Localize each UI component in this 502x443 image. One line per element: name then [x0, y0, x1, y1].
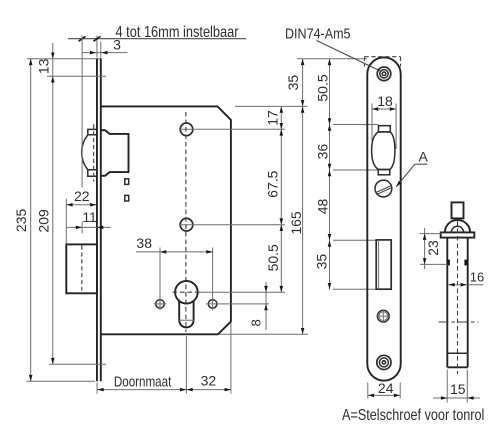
svg-text:8: 8: [249, 319, 264, 326]
dim 3 faceplate thickness: [82, 52, 128, 54]
svg-text:13: 13: [36, 58, 52, 74]
extension line at 13 below top: [47, 75, 106, 77]
top extension line (plate top): [27, 58, 100, 60]
extension deadbolt top: [333, 239, 376, 241]
faceplate outline (front view): [367, 57, 400, 380]
screw hole middle: [180, 218, 193, 231]
dim 38: [136, 251, 213, 253]
small square detail lower: [125, 195, 129, 201]
hole top center line: [179, 128, 285, 130]
svg-text:165: 165: [288, 211, 304, 235]
dim 8: [265, 282, 267, 330]
dim 18 extensions: [371, 104, 373, 150]
latch barrel (front view): [372, 132, 395, 170]
svg-text:50.5: 50.5: [315, 74, 331, 101]
dim 4 tot 16mm instelbaar: [68, 38, 246, 40]
svg-text:38: 38: [136, 235, 152, 251]
svg-text:35: 35: [313, 254, 329, 270]
dim 15: [433, 397, 480, 399]
svg-text:11: 11: [82, 209, 97, 225]
svg-text:32: 32: [201, 372, 217, 388]
svg-text:24: 24: [378, 380, 394, 396]
latch bolt tail inside body: [101, 130, 129, 176]
extension deadbolt bottom: [333, 288, 376, 290]
svg-text:A=Stelschroef voor tonrol: A=Stelschroef voor tonrol: [342, 407, 484, 424]
svg-text:209: 209: [35, 209, 51, 233]
svg-text:Doornmaat: Doornmaat: [114, 375, 172, 391]
latch stem top (front view): [379, 126, 391, 132]
svg-text:22: 22: [74, 188, 90, 204]
dim 23: [424, 228, 426, 269]
dim 209 bottom extension: [49, 363, 106, 365]
dim 23 extensions: [420, 233, 441, 235]
dim Doornmaat: [97, 389, 186, 391]
deadbolt opening (front view): [376, 240, 391, 289]
fixing hole right center line extension: [206, 303, 269, 305]
svg-text:17: 17: [264, 110, 280, 126]
fixing hole right: [208, 300, 217, 309]
bottom screw: [377, 355, 391, 369]
svg-text:18: 18: [377, 93, 393, 109]
doornmaat extension at plate: [96, 383, 98, 394]
dim 24 extensions: [367, 383, 369, 399]
lock body outline: [101, 106, 231, 334]
faceplate front edge (side view): [96, 58, 98, 381]
euro cylinder stem: [179, 301, 193, 327]
latch tip extension line: [81, 36, 83, 188]
svg-text:A: A: [419, 148, 429, 164]
dim 209 / dim 13 shared line: [52, 43, 54, 364]
DIN74 leader line: [317, 41, 380, 71]
body top extension line: [235, 105, 308, 107]
leader A with arrowhead: [396, 164, 415, 187]
deadbolt hidden dashes: [81, 246, 83, 291]
vertical centerline dashed: [185, 112, 187, 332]
plate top extension to faceplate view: [297, 58, 367, 60]
svg-text:35: 35: [285, 75, 301, 91]
latch stem bottom (front view): [378, 170, 390, 175]
dim 235 bottom extension (plate bottom): [27, 380, 96, 382]
latch hidden line dashed: [93, 124, 95, 181]
screw hole top: [180, 123, 193, 136]
fixing hole left: [156, 300, 165, 309]
dim 235 line: [30, 59, 32, 381]
latch bolt head (side view): [82, 129, 97, 176]
doornmaat extension at body edge: [230, 323, 232, 394]
svg-text:4 tot 16mm instelbaar: 4 tot 16mm instelbaar: [116, 24, 240, 41]
euro cylinder circle: [175, 281, 198, 304]
latch tip extension tick at dim 11: [81, 222, 83, 234]
svg-text:36: 36: [315, 144, 331, 160]
roller dome outer: [445, 220, 470, 233]
dim 16: [448, 284, 483, 286]
roller body cap line: [447, 352, 467, 354]
small square detail upper: [125, 179, 129, 185]
faceplate back edge (side view): [100, 58, 102, 381]
svg-text:15: 15: [450, 381, 466, 397]
svg-text:48: 48: [315, 199, 331, 215]
dim 24: [368, 394, 400, 396]
dim 18: [372, 108, 396, 110]
svg-text:16: 16: [470, 269, 484, 284]
svg-text:67.5: 67.5: [265, 170, 281, 197]
roller stem: [452, 202, 464, 218]
roller dome inner: [451, 226, 463, 232]
svg-text:DIN74-Am5: DIN74-Am5: [285, 25, 351, 42]
dim 22 extension: [65, 199, 67, 244]
dim 22: [66, 204, 96, 206]
dim 32: [186, 389, 231, 391]
dim 15 extensions: [446, 370, 448, 403]
extension latch bottom: [333, 169, 378, 171]
extension latch top: [333, 124, 378, 126]
svg-text:50.5: 50.5: [265, 244, 281, 271]
roller body bottom: [447, 366, 467, 368]
deadbolt thrown (side view): [66, 244, 97, 293]
DIN74 dashed countersink box: [365, 56, 401, 58]
dim 11: [67, 226, 111, 228]
euro center extension line: [199, 291, 285, 293]
euro cylinder horizontal centerline: [173, 291, 201, 293]
dim chain 50.5 / 36 / 48 / 35 line: [329, 59, 331, 289]
roller horizontal centerline: [439, 321, 479, 323]
roller pin nub left: [447, 260, 450, 266]
dim chain 35 / 165 line: [302, 59, 304, 335]
dim chain 17 / 67.5 / 50.5 line: [280, 106, 282, 292]
stem arc center tick: [179, 319, 195, 321]
dim 38 extensions: [159, 248, 161, 298]
roller body: [446, 238, 448, 368]
roller flange: [441, 232, 475, 237]
adjusting screw A: [375, 180, 392, 197]
middle fixing hole (front view): [377, 310, 389, 322]
body bottom extension: [219, 333, 308, 335]
roller vertical centerline: [457, 221, 459, 374]
hole middle center line: [179, 224, 285, 226]
extension lines above faceplate for dim 3: [96, 36, 98, 58]
top screw: [377, 67, 391, 81]
doornmaat extension at cylinder center: [185, 336, 187, 394]
svg-text:235: 235: [13, 209, 29, 233]
svg-text:23: 23: [425, 240, 441, 256]
roller pin nub right: [464, 260, 467, 266]
